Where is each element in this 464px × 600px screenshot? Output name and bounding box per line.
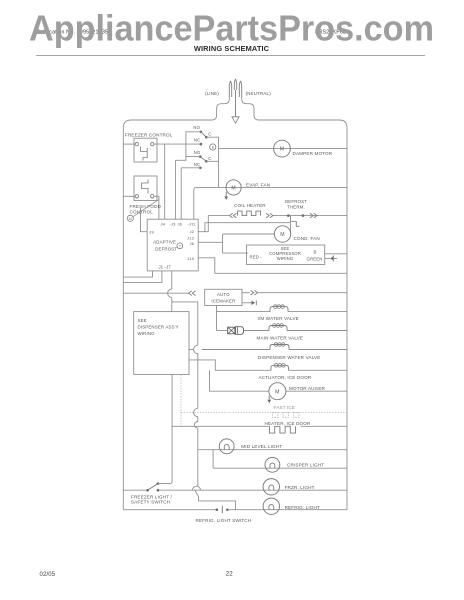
defrost thermostat junction right [302,214,305,217]
jog to refrig switch bypass [195,490,236,510]
callout leader line [133,200,159,217]
svg-text:ACTUATOR, ICE DOOR: ACTUATOR, ICE DOOR [259,375,312,380]
wire border to safety switch [123,489,147,491]
coil heater element [238,211,261,216]
svg-text:CONTROL: CONTROL [130,209,154,214]
wire icemaker to bus [242,292,250,294]
power cord prong left [229,81,231,97]
circled number 7 callout [177,243,183,249]
freezer control internal switch [141,147,148,161]
lights feed branch [172,302,198,345]
svg-text:CRISPER LIGHT: CRISPER LIGHT [287,462,324,467]
wire border to freezer control [123,143,135,145]
svg-text:DISPENSER WATER VALVE: DISPENSER WATER VALVE [258,355,320,360]
svg-text:C: C [208,131,211,136]
svg-text:I/M WATER VALVE: I/M WATER VALVE [258,316,299,321]
svg-text:DISPENSER ASS'Y: DISPENSER ASS'Y [138,324,179,329]
svg-text:J10: J10 [187,256,195,261]
top border right segment [259,120,347,128]
icemaker arrows left [189,291,196,296]
svg-text:M: M [280,232,284,238]
compressor green ground lead [325,257,331,259]
svg-text:J9: J9 [149,229,154,234]
svg-text:22: 22 [226,571,234,578]
svg-text:AppliancePartsPros.com: AppliancePartsPros.com [29,8,434,49]
svg-text:DEFROST: DEFROST [155,246,177,251]
wire freezer control to NC contact [154,143,201,145]
wire border to icemaker [123,292,188,294]
wire J6 to node [198,241,222,243]
freezer control box [134,138,157,162]
defrost thermostat element [291,216,300,227]
wire cord right drop to border [242,97,259,120]
svg-text:02/05: 02/05 [40,572,56,578]
wire J10 to bus [198,258,347,274]
main valve connector plug [228,327,235,334]
safety switch common contact [146,489,149,492]
wire node to compressor RED [223,252,248,254]
switch S1 blade [201,132,206,137]
switch S1 NO contact [200,131,203,134]
adaptive defrost box [147,219,198,271]
dispenser assy box [134,312,189,375]
wire cord left drop to border [212,97,229,120]
wire auger feed [210,370,270,391]
wire J2 to heater riser [198,216,229,232]
wire NO bracket [186,132,201,157]
auger motor [269,383,286,400]
wire J6 drop [180,168,182,219]
svg-text:J6: J6 [178,222,183,227]
wire J3 drop [174,160,176,219]
svg-text:MAIN WATER VALVE: MAIN WATER VALVE [257,336,304,341]
icemaker output arrows [251,290,258,295]
wire main valve line [217,330,228,332]
wire compressor B to bus [325,253,347,255]
safety switch wire contact [157,489,160,492]
mid level light junction [197,450,199,486]
ground wire [235,90,237,117]
refrig lamp [263,498,279,514]
svg-text:B: B [314,249,317,254]
svg-text:J6: J6 [190,241,195,246]
safety switch blade [148,484,158,491]
svg-text:MID LEVEL LIGHT: MID LEVEL LIGHT [241,444,282,449]
switch S2 blade [200,157,206,162]
fast ice heater element [273,413,300,418]
bottom wire right [227,509,347,511]
svg-text:J12: J12 [187,235,195,240]
svg-text:REFRIG. LIGHT: REFRIG. LIGHT [285,505,320,510]
bottom wire left [123,509,217,511]
fresh food control box [134,176,157,201]
svg-text:WIRING: WIRING [277,256,294,261]
svg-text:HEATER, ICE DOOR: HEATER, ICE DOOR [265,421,311,426]
svg-text:NC: NC [194,137,200,142]
freezer control terminal left [135,142,138,145]
svg-text:ICEMAKER: ICEMAKER [211,299,235,304]
icemaker aux output plug [242,302,252,304]
svg-text:7: 7 [179,244,181,248]
wire mid level light line [198,449,347,451]
wire J7 return to border [123,271,162,283]
svg-text:(LINE): (LINE) [205,91,219,96]
wire commons vertical [206,137,218,187]
frzr lamp [263,479,279,495]
circled number 8 callout [210,144,216,150]
power cord prong middle [234,79,236,90]
svg-text:WIRING SCHEMATIC: WIRING SCHEMATIC [194,44,270,53]
switch S2 NO contact [199,155,202,158]
defrost thermostat junction left [287,214,290,217]
svg-text:J4: J4 [161,222,166,227]
compressor box [247,245,325,265]
refrig light switch plunger [221,506,223,514]
wire actuator line [189,360,271,370]
switch S2 NC contact [199,167,202,170]
node vertical [222,234,224,253]
left bus wire [122,128,124,510]
wire J4 drop [164,144,166,219]
wire switch to dispenser feed [158,374,172,483]
crisper tie vertical [212,450,214,469]
cond fan motor [274,226,290,242]
lights feed vertical with hops [197,354,199,409]
svg-text:EVAP. FAN: EVAP. FAN [246,182,270,187]
header rule [36,54,425,56]
svg-text:MOTOR AUGER: MOTOR AUGER [289,386,326,391]
svg-text:-J3: -J3 [170,222,177,227]
svg-text:(NEUTRAL): (NEUTRAL) [246,91,272,96]
svg-text:NC: NC [194,162,200,167]
evap fan motor [226,180,241,195]
auto icemaker box [205,289,242,305]
wire node to cond fan [223,233,275,235]
switch S1 NC contact [200,143,203,146]
ground symbol [232,117,239,123]
svg-text:REFRIG. LIGHT SWITCH: REFRIG. LIGHT SWITCH [196,518,252,523]
power cord prong right [239,81,241,97]
svg-text:M: M [231,186,235,192]
fresh food terminal left [135,195,138,198]
wire J2 branch to cond fan right [205,223,291,234]
svg-text:M: M [280,147,284,153]
svg-text:-J11: -J11 [188,222,197,227]
wire auger line to bus [286,390,347,392]
svg-text:AUTO: AUTO [217,292,230,297]
top border left segment [123,120,212,128]
svg-text:THERM.: THERM. [287,205,305,210]
svg-text:FAST ICE: FAST ICE [274,405,296,410]
svg-text:8: 8 [212,146,214,150]
svg-text:NO: NO [193,125,200,130]
main water valve coil [269,326,287,331]
svg-text:GREEN: GREEN [307,256,323,261]
wire fresh food to defrost J-top [154,196,159,219]
wire evap fan line [219,186,347,188]
wire damper motor line [219,148,347,150]
svg-text:DAMPER MOTOR: DAMPER MOTOR [293,151,333,156]
wire dispenser valve line [189,349,194,351]
svg-text:10: 10 [128,217,132,221]
heater ice door element [270,426,296,433]
svg-text:C: C [208,156,211,161]
wire J11 riser [194,187,219,219]
wire NC2 to J6 [181,167,200,169]
switch S1 common contact [205,136,208,139]
svg-text:M: M [275,389,279,395]
svg-text:J2: J2 [190,229,195,234]
switch S2 common contact [205,160,208,163]
wire IM valve line [217,311,271,313]
svg-text:SAFETY SWITCH: SAFETY SWITCH [131,500,170,505]
right bus wire [346,128,348,510]
svg-text:FREEZER LIGHT /: FREEZER LIGHT / [131,494,173,499]
safety switch NO contact [157,482,160,485]
wire J1 return to border [123,271,152,277]
wire J9 stub [141,208,148,232]
wire frzr light line [158,489,347,491]
svg-text:J1 -J7: J1 -J7 [159,265,172,270]
svg-text:ADAPTIVE: ADAPTIVE [153,239,176,244]
svg-text:COND. FAN: COND. FAN [294,236,320,241]
svg-text:RED -: RED - [250,255,263,260]
fresh food terminal right [151,195,154,198]
main feed vertical with hop [171,271,173,289]
circled number 10 callout [127,215,133,221]
damper motor [274,140,291,157]
crisper lamp [265,457,280,472]
refrig light switch contact left [216,508,219,511]
svg-text:SEE: SEE [138,318,147,323]
coil heater arrows left [230,213,237,218]
wire heater ice door line left [172,425,270,427]
heater ice door junction jog [197,354,199,356]
svg-text:WIRING: WIRING [138,331,156,336]
wire bracket feed to J3 [175,157,186,161]
fresh food internal switch [142,180,148,194]
refrig light switch contact right [226,508,229,511]
svg-text:FREEZER CONTROL: FREEZER CONTROL [125,132,173,137]
freezer control terminal right [151,142,154,145]
defrost line arrows right [310,213,317,218]
fast ice line [181,412,347,414]
fast ice feed [180,374,182,426]
dispenser valve coil [270,345,289,350]
coil heater arrows right [266,213,273,218]
svg-text:NO: NO [194,150,201,155]
IM water valve coil [270,307,288,312]
actuator coil [271,365,289,370]
wire crisper light line [213,467,347,469]
svg-text:COIL HEATER: COIL HEATER [234,203,266,208]
wire border to fresh food control [123,195,135,197]
svg-text:FRZR. LIGHT: FRZR. LIGHT [285,485,315,490]
wire heater ice door to bus [301,425,347,427]
wire heater to bus [273,215,347,217]
evap fan direction arrow [225,192,227,197]
svg-text:DEFROST: DEFROST [285,199,307,204]
auger direction arrow [268,396,270,400]
icemaker bottom feed [216,306,218,331]
mid level lamp [219,439,234,454]
